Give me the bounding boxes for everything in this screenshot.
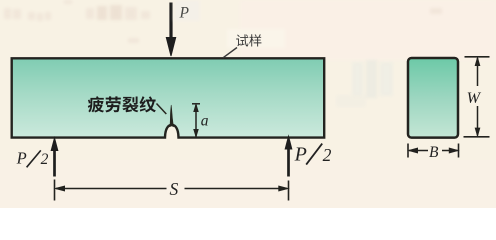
svg-text:a: a xyxy=(201,112,209,129)
svg-text:W: W xyxy=(467,90,482,107)
label 疲劳裂纹 xyxy=(88,96,156,112)
svg-text:P: P xyxy=(294,144,307,166)
label P/2 left xyxy=(16,148,49,168)
left support reaction arrow xyxy=(51,138,58,177)
svg-text:S: S xyxy=(170,179,179,199)
label 试样 xyxy=(236,34,261,46)
cross-section rectangle xyxy=(408,58,458,138)
specimen bar with crack notch xyxy=(12,58,325,137)
label P/2 right xyxy=(294,144,332,166)
svg-text:P: P xyxy=(179,5,190,22)
leader line 试样 xyxy=(223,48,237,58)
dimension B xyxy=(408,144,459,158)
dimension S xyxy=(55,180,289,201)
light patch behind P xyxy=(174,0,200,21)
svg-text:B: B xyxy=(429,144,439,161)
svg-text:2: 2 xyxy=(41,151,49,168)
dimension W xyxy=(464,57,490,137)
label patch 试样 xyxy=(227,29,285,48)
dimension a xyxy=(192,104,200,137)
svg-text:2: 2 xyxy=(323,145,332,165)
fatigue crack line xyxy=(170,105,174,127)
right support reaction arrow xyxy=(285,136,292,176)
load arrow P xyxy=(166,3,175,57)
leader line 疲劳裂纹 xyxy=(157,104,167,115)
svg-text:P: P xyxy=(16,148,27,167)
